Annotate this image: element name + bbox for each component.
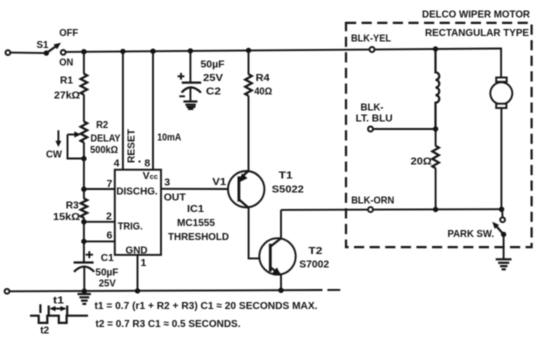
svg-text:BLK-YEL: BLK-YEL — [351, 32, 392, 44]
svg-text:t2: t2 — [40, 325, 49, 337]
motor M — [490, 78, 512, 210]
svg-text:15kΩ: 15kΩ — [53, 211, 80, 223]
junction: C1 / rail — [82, 288, 87, 293]
junction: rail / C2 — [188, 48, 193, 53]
wire: pin 2 to IC — [84, 221, 115, 223]
transistor T2 (NPN S7002) — [259, 238, 295, 275]
waveform t1/t2 — [30, 304, 88, 323]
junction: motor lead / BLK-ORN — [499, 207, 504, 212]
svg-text:V1: V1 — [212, 176, 226, 188]
svg-text:25V: 25V — [99, 278, 116, 290]
capacitor C1 — [74, 263, 95, 272]
svg-text:OFF: OFF — [59, 27, 79, 39]
svg-text:MC1555: MC1555 — [177, 217, 215, 229]
svg-text:DISCHG.: DISCHG. — [116, 186, 157, 198]
svg-text:RESET: RESET — [126, 128, 138, 163]
ground: park switch — [496, 259, 512, 269]
svg-text:S5022: S5022 — [272, 183, 304, 195]
junction: pin1 / rail — [135, 288, 140, 293]
svg-text:OUT: OUT — [164, 192, 187, 204]
dashed enclosure: Delco wiper motor — [346, 23, 532, 247]
R2 wiper arrow — [68, 131, 81, 137]
ground: below rail at C1 line — [78, 291, 91, 304]
ground: C2 — [183, 102, 197, 109]
wire: bottom ground rail — [9, 290, 322, 291]
svg-text:500kΩ: 500kΩ — [90, 144, 118, 156]
svg-text:ON: ON — [59, 57, 73, 69]
ground rail left terminal — [5, 289, 10, 294]
wire: pin 8 to rail — [152, 51, 154, 170]
resistor 20 ohm — [432, 129, 439, 210]
svg-text:IC1: IC1 — [187, 203, 204, 215]
svg-text:R2: R2 — [96, 119, 108, 131]
wire: R2 wiper bracket — [68, 135, 84, 159]
svg-text:BLK-ORN: BLK-ORN — [351, 195, 394, 207]
resistor R3 — [81, 199, 88, 218]
svg-text:DELAY: DELAY — [91, 132, 121, 144]
park switch — [492, 209, 506, 259]
wire: T2 emitter to ground rail — [280, 275, 282, 290]
wire: C1 bottom to ground rail — [83, 267, 85, 292]
svg-text:DELCO WIPER MOTOR: DELCO WIPER MOTOR — [422, 9, 530, 21]
junction: rail / pin4 — [120, 49, 125, 54]
wire: x=84 vertical from rail to R1 — [83, 52, 85, 74]
junction: rail / R4 — [246, 48, 251, 53]
node BLK-ORN terminal — [368, 207, 373, 212]
svg-text:RECTANGULAR TYPE: RECTANGULAR TYPE — [425, 27, 529, 39]
svg-text:PARK SW.: PARK SW. — [448, 228, 495, 240]
svg-text:2: 2 — [106, 210, 112, 222]
svg-text:7: 7 — [107, 178, 113, 190]
svg-text:R1: R1 — [60, 75, 73, 87]
wire: rail corner down to motor — [500, 49, 502, 78]
wire: pin 7 to IC — [84, 188, 115, 190]
junction: wiper / main line — [81, 156, 86, 161]
svg-text:40Ω: 40Ω — [254, 86, 272, 98]
svg-text:3: 3 — [164, 177, 170, 189]
node BLK-LT.BLU terminal and wire — [368, 127, 436, 132]
stray middot — [138, 160, 140, 162]
wire: input terminal to S1 pivot — [6, 50, 47, 55]
svg-text:R4: R4 — [256, 72, 270, 84]
node BLK-YEL terminal — [370, 47, 375, 52]
CW direction arrow — [55, 130, 61, 147]
wire: top supply rail — [66, 49, 502, 52]
svg-text:R3: R3 — [66, 199, 79, 211]
svg-text:t1: t1 — [53, 295, 64, 307]
wire: T1 collector down and to T2 base — [249, 208, 271, 259]
wire: pin 4 to rail — [122, 51, 124, 169]
resistor R4 — [245, 50, 252, 171]
svg-text:S7002: S7002 — [299, 259, 329, 271]
switch S1 — [44, 43, 66, 56]
junction: pin2 — [81, 219, 86, 224]
wire: pin 3 OUT to T1 base — [161, 188, 228, 190]
svg-text:20Ω: 20Ω — [411, 156, 432, 168]
C2 minus sign — [179, 95, 185, 97]
IC U1 box (IC1 MC1555) — [115, 170, 161, 255]
svg-text:10mA: 10mA — [157, 132, 181, 144]
svg-text:LT. BLU: LT. BLU — [356, 113, 393, 125]
wire: rail continuation dash — [327, 289, 340, 291]
C1 plus sign — [86, 251, 93, 258]
svg-text:CW: CW — [46, 148, 62, 160]
svg-text:t2 = 0.7 R3 C1 ≈ 0.5 SECONDS.: t2 = 0.7 R3 C1 ≈ 0.5 SECONDS. — [96, 318, 241, 330]
wire: R3 bottom through pin2/pin6 junctions to C1 — [83, 218, 85, 263]
svg-text:C1: C1 — [101, 252, 114, 264]
svg-text:1: 1 — [141, 257, 147, 269]
junction: rail / R1 — [81, 49, 86, 54]
C2 plus sign — [178, 73, 185, 80]
svg-text:TRIG.: TRIG. — [118, 220, 143, 232]
svg-text:6: 6 — [107, 229, 113, 241]
wire: pin 6 to IC — [84, 240, 115, 242]
svg-text:S1: S1 — [37, 39, 49, 51]
wire: R1 bottom to R2 top — [83, 95, 85, 122]
resistor R1 — [81, 74, 88, 95]
wire: BLK-ORN line — [281, 208, 503, 211]
junction: pin6 — [81, 239, 86, 244]
svg-text:C2: C2 — [206, 86, 221, 98]
junction: pin7 — [81, 187, 86, 192]
transistor T1 (PNP S5022) — [228, 171, 264, 208]
capacitor C2 — [182, 51, 202, 93]
svg-text:27kΩ: 27kΩ — [54, 89, 80, 101]
wire: pin 1 to ground rail — [137, 255, 139, 291]
svg-text:8: 8 — [144, 157, 150, 169]
junction: rail / pin8 — [150, 49, 155, 54]
svg-text:GND: GND — [126, 244, 148, 256]
junction: coil / BLK-LT.BLU — [433, 126, 438, 131]
svg-text:25V: 25V — [203, 72, 223, 84]
svg-text:T2: T2 — [308, 245, 322, 257]
svg-text:Vcc: Vcc — [143, 170, 158, 182]
junction: T2 emitter / ground rail — [278, 288, 283, 293]
wire: T2 collector up to BLK-ORN line — [280, 210, 282, 238]
inductor L (motor field coil) — [436, 50, 440, 130]
junction: rail / inductor — [433, 46, 438, 51]
potentiometer R2 — [81, 122, 88, 143]
junction: 20 ohm / BLK-ORN line — [433, 207, 438, 212]
wire: R2 bottom to pin7 junction — [83, 142, 85, 198]
wire: C2 to ground — [189, 88, 191, 102]
svg-text:THRESHOLD: THRESHOLD — [168, 231, 229, 243]
svg-text:T1: T1 — [279, 170, 293, 182]
svg-text:50µF: 50µF — [201, 59, 226, 71]
svg-text:4: 4 — [114, 157, 120, 169]
svg-text:t1 = 0.7 (r1 + R2 + R3) C1 ≈ 2: t1 = 0.7 (r1 + R2 + R3) C1 ≈ 20 SECONDS … — [95, 300, 318, 312]
